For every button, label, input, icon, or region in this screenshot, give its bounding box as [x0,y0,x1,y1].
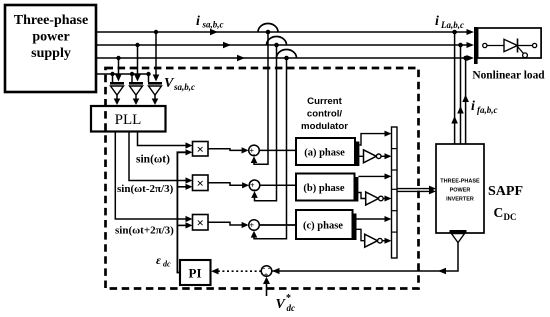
block: PI controller [180,260,211,285]
label: current control / modulator [301,96,348,132]
wire: filter current line b [457,43,464,144]
wire: filter current line a [451,30,458,144]
CT sensor on phase A [258,24,278,35]
svg-text:control/: control/ [307,109,343,120]
svg-text:dc: dc [287,303,296,313]
svg-text:sin(ωt-2π/3): sin(ωt-2π/3) [117,183,174,195]
CT sensor on phase C [277,50,297,61]
wire: filter current line c [462,56,469,144]
wire: neutral bus from supply [96,74,149,82]
block: (b) phase [296,174,358,202]
svg-text:×: × [196,141,203,156]
wire: voltage tap from phase C [115,56,121,82]
svg-text:PI: PI [189,266,202,281]
svg-text:SAPF: SAPF [488,184,523,199]
svg-text:Current: Current [307,96,342,107]
svg-text:Three-phase: Three-phase [14,13,88,28]
multiplier M2 [193,175,209,191]
svg-text:power: power [32,30,69,45]
svg-text:i: i [196,14,200,29]
wire: Vdc reference input arrow [263,277,270,296]
block: (a) phase [296,138,359,166]
NOT gate 3 [357,229,392,247]
svg-text:dc: dc [163,260,171,269]
wire: phase line A [96,29,474,35]
wire: voltage tap from phase A [153,30,160,82]
label: V_sa,b,c [164,76,195,92]
svg-text:i: i [471,99,475,114]
svg-text:Nonlinear load: Nonlinear load [472,70,545,82]
wire: M1 output to summer A [208,147,249,153]
gate-signal collector bar [392,127,398,258]
summing junction B [249,180,260,194]
wire: summer A output to (a) phase [259,149,296,151]
wire: sin(wt+2pi/3) from PLL to multiplier 3 [115,132,192,223]
wire: phase line B [96,42,474,48]
block: three-phase power supply [5,5,96,92]
label: i_sa,b,c [196,14,224,30]
wire: summer B output to (b) phase [260,184,296,186]
svg-text:×: × [196,175,203,190]
svg-text:×: × [196,215,203,230]
svg-text:(a) phase: (a) phase [304,148,345,159]
label: i_fa,b,c [471,99,498,115]
svg-text:C: C [494,205,504,220]
svg-text:fa,b,c: fa,b,c [477,105,498,115]
label: epsilon_dc [156,253,171,269]
dashed boundary: control block [106,68,419,289]
label: i_La,b,c [435,14,464,30]
wire: DC voltage feedback to summer D [272,243,458,275]
NOT gate 2 [355,192,392,205]
wire: CT A feedback into summer A [251,32,268,164]
svg-text:PLL: PLL [115,112,142,128]
label: C_DC [494,205,517,222]
svg-text:(b) phase: (b) phase [303,183,344,194]
voltage transducer 2 [129,82,143,105]
svg-text:DC: DC [504,212,517,222]
wire: sin(wt) from PLL to multiplier 1 [138,132,193,149]
voltage transducer 1 [110,82,124,105]
wire: double gating bus to inverter [397,186,436,195]
wire: (c) direct output to gate bar [357,216,392,222]
wire: CT C feedback into summer C [251,58,287,239]
wire: voltage tap from phase B [134,43,141,82]
wire: M2 output to summer B [208,182,249,188]
wire: phase line C [96,55,474,61]
svg-text:INVERTER: INVERTER [446,197,474,203]
svg-text:sin(ωt): sin(ωt) [136,154,170,166]
wire: dotted error signal to PI [211,268,261,274]
label: V*_dc [276,293,296,313]
svg-text:(c) phase: (c) phase [303,221,343,232]
wire: PI output amplitude line feeding multipliers [177,149,192,272]
busbar at load [474,27,478,64]
junction dots on neutral bus [110,72,150,76]
DC-link capacitor symbol under inverter [450,231,467,242]
svg-text:THREE-PHASE: THREE-PHASE [440,179,480,185]
block: three-phase power inverter [436,144,484,233]
summing junction A [249,145,260,159]
svg-text:sin(ωt+2π/3): sin(ωt+2π/3) [115,225,174,237]
svg-text:sa,b,c: sa,b,c [202,20,224,30]
svg-text:POWER: POWER [450,188,471,194]
wire: (a) direct output to gate bar [359,131,391,145]
svg-text:ε: ε [156,253,161,267]
block: nonlinear load [478,28,541,58]
multiplier M3 [193,215,209,231]
voltage transducer 3 [148,82,162,105]
multiplier M1 [193,141,209,156]
svg-text:sa,b,c: sa,b,c [173,82,195,92]
wire: CT B feedback into summer B [251,45,276,201]
summing junction C [249,220,260,234]
svg-text:La,b,c: La,b,c [440,20,464,30]
wire: M3 output to summer C [208,222,249,228]
block: (c) phase [296,210,357,240]
wire: (b) direct output to gate bar [358,173,391,179]
NOT gate 1 [356,150,392,163]
svg-text:i: i [435,14,439,29]
block: PLL [91,106,166,132]
wire: sin(wt-2pi/3) from PLL to multiplier 2 [129,132,193,184]
wire: summer C output to (c) phase [259,224,296,226]
CT sensor on phase B [267,37,287,48]
svg-text:supply: supply [31,46,71,61]
summing junction D (Vdc comparison) [261,263,272,280]
svg-text:modulator: modulator [301,121,348,132]
